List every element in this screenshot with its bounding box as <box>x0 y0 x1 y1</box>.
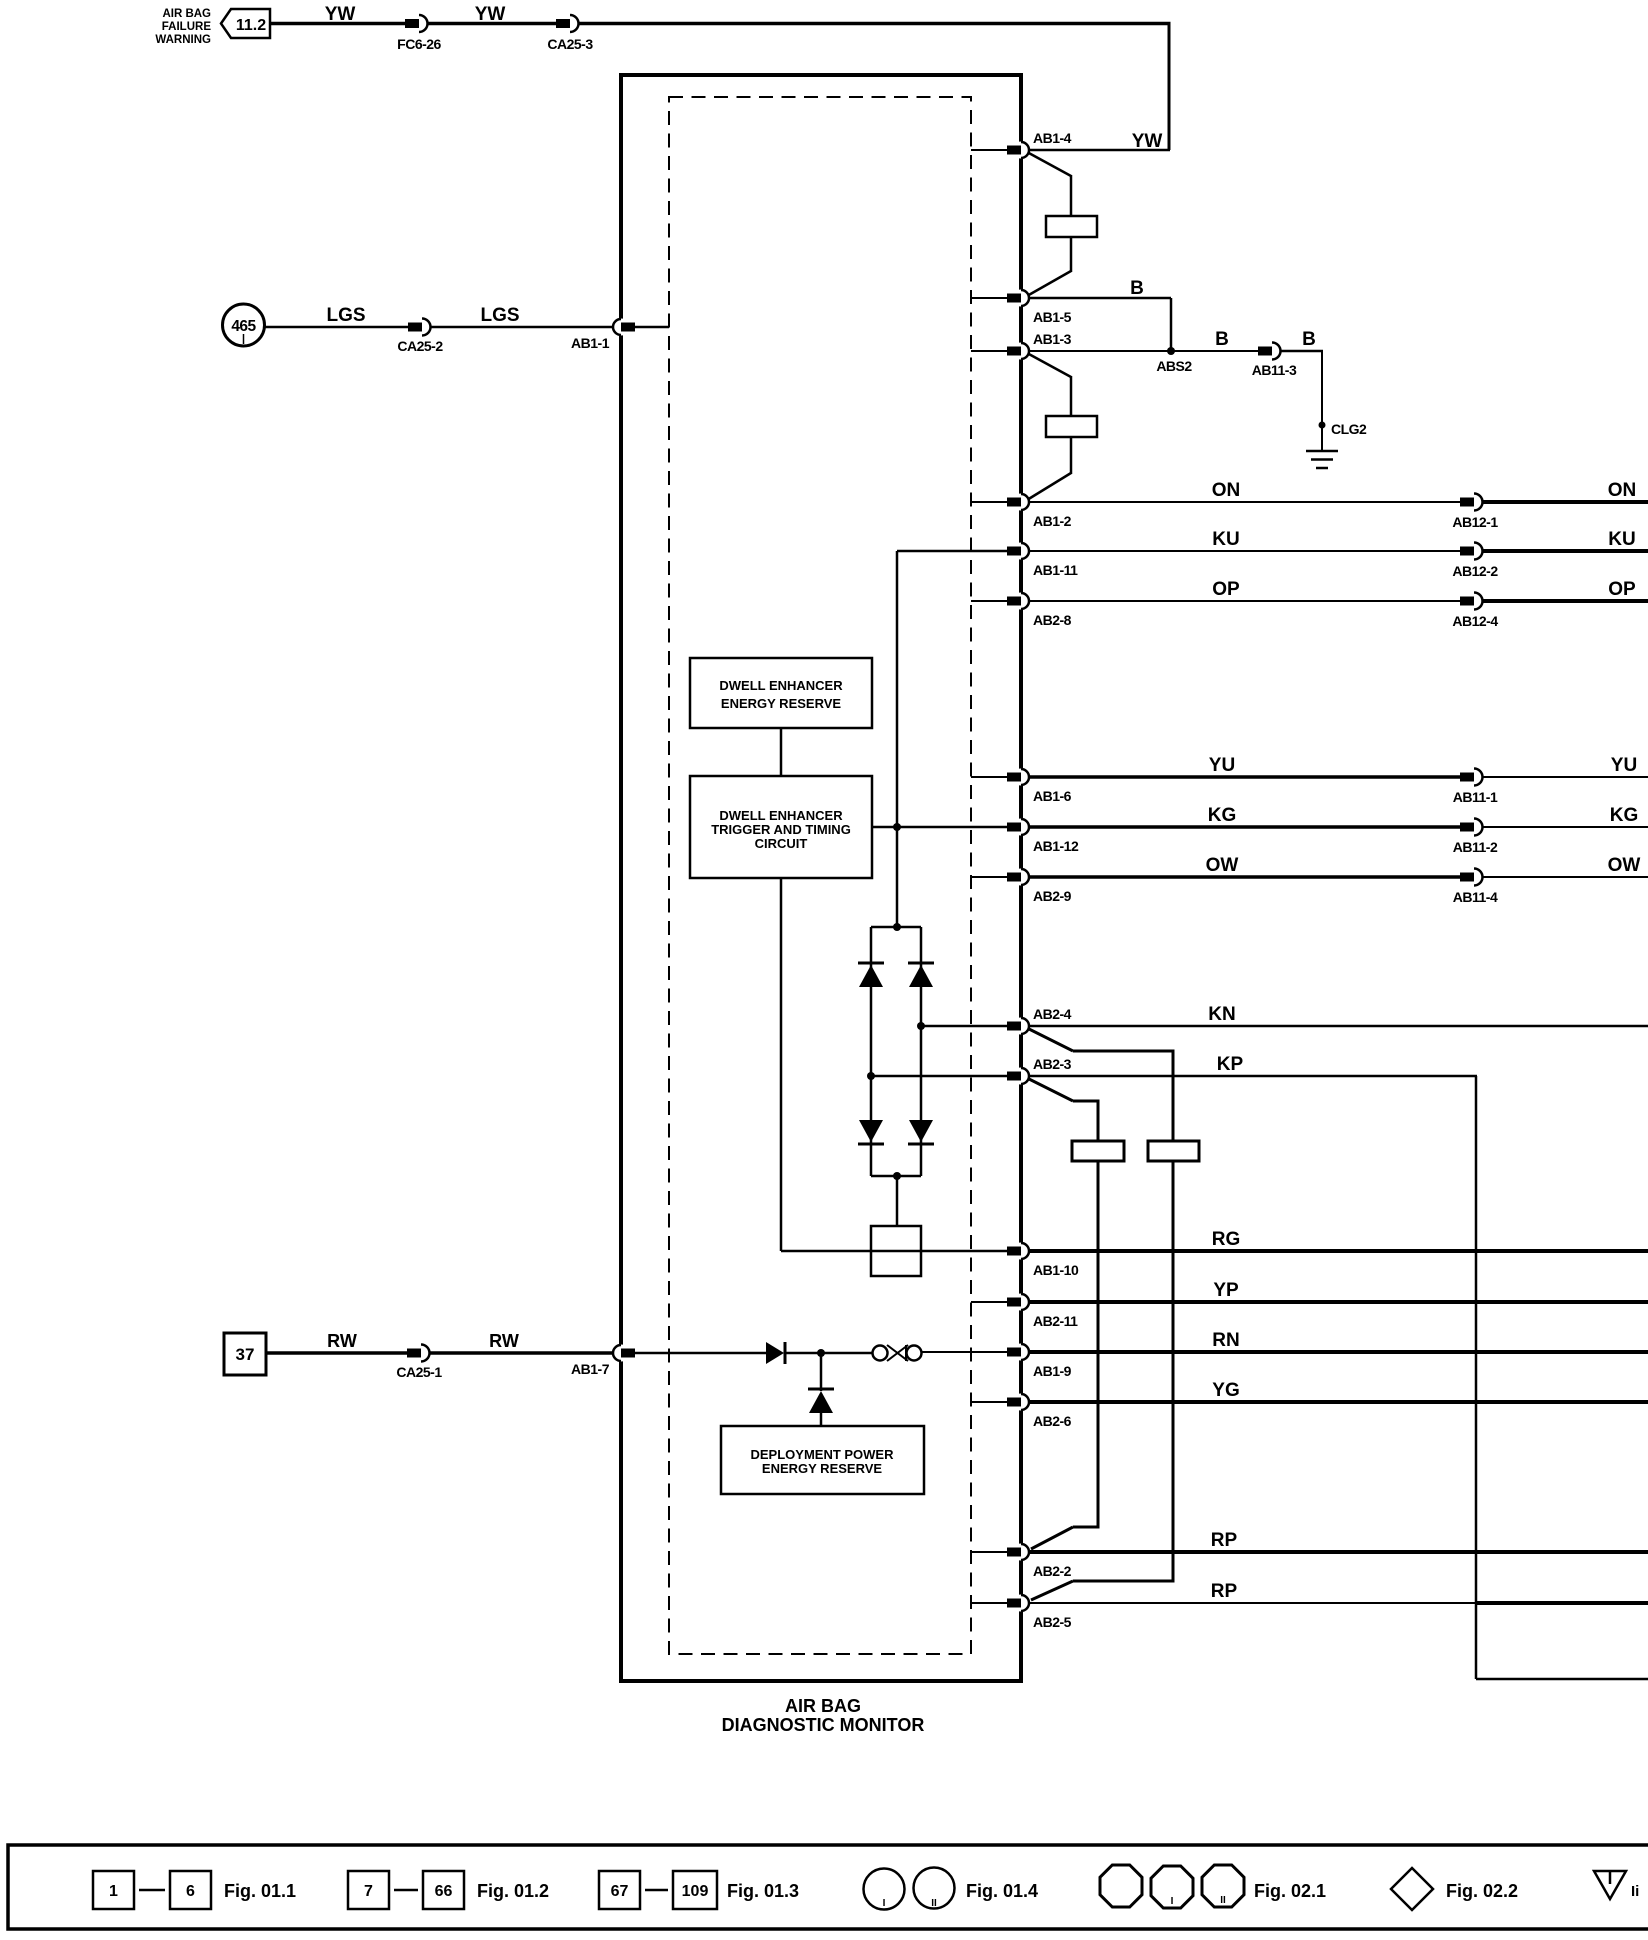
svg-text:YU: YU <box>1209 755 1235 776</box>
svg-text:AB1-2: AB1-2 <box>1033 513 1072 529</box>
svg-text:67: 67 <box>611 1883 629 1900</box>
svg-text:KG: KG <box>1208 805 1237 826</box>
svg-text:OP: OP <box>1212 579 1240 600</box>
svg-text:AB2-3: AB2-3 <box>1033 1056 1072 1072</box>
svg-text:YP: YP <box>1213 1280 1239 1301</box>
svg-text:II: II <box>931 1898 937 1909</box>
svg-text:AB1-10: AB1-10 <box>1033 1262 1079 1278</box>
svg-text:I: I <box>1171 1896 1174 1907</box>
svg-text:CA25-1: CA25-1 <box>396 1364 442 1380</box>
svg-text:AB1-11: AB1-11 <box>1033 562 1078 578</box>
svg-text:Fig. 02.2: Fig. 02.2 <box>1446 1881 1518 1901</box>
svg-text:FAILURE: FAILURE <box>162 21 212 33</box>
svg-text:AB1-12: AB1-12 <box>1033 838 1079 854</box>
svg-text:Fig. 01.2: Fig. 01.2 <box>477 1881 549 1901</box>
svg-text:AB2-6: AB2-6 <box>1033 1413 1072 1429</box>
svg-text:RG: RG <box>1212 1229 1241 1250</box>
svg-text:AB2-8: AB2-8 <box>1033 612 1072 628</box>
svg-text:B: B <box>1215 329 1229 350</box>
svg-text:AB1-6: AB1-6 <box>1033 788 1072 804</box>
svg-text:AB1-5: AB1-5 <box>1033 309 1072 325</box>
svg-text:RW: RW <box>327 1331 357 1351</box>
svg-text:YW: YW <box>1132 131 1163 152</box>
svg-text:465: 465 <box>231 318 256 335</box>
svg-text:CA25-2: CA25-2 <box>397 338 443 354</box>
svg-text:ON: ON <box>1608 480 1637 501</box>
svg-text:AB11-3: AB11-3 <box>1252 362 1297 378</box>
svg-text:RP: RP <box>1211 1581 1238 1602</box>
svg-text:1: 1 <box>109 1883 118 1900</box>
svg-text:Fig. 01.3: Fig. 01.3 <box>727 1881 799 1901</box>
svg-text:YU: YU <box>1611 755 1637 776</box>
svg-text:AB11-1: AB11-1 <box>1453 789 1498 805</box>
svg-text:OW: OW <box>1608 855 1641 876</box>
svg-text:37: 37 <box>236 1345 255 1364</box>
svg-text:AB1-7: AB1-7 <box>571 1361 610 1377</box>
svg-text:AB1-3: AB1-3 <box>1033 331 1072 347</box>
svg-text:KP: KP <box>1217 1054 1244 1075</box>
svg-text:109: 109 <box>682 1883 709 1900</box>
svg-text:AB2-2: AB2-2 <box>1033 1563 1072 1579</box>
svg-text:DIAGNOSTIC MONITOR: DIAGNOSTIC MONITOR <box>722 1715 925 1735</box>
svg-text:FC6-26: FC6-26 <box>397 36 441 52</box>
svg-text:RP: RP <box>1211 1530 1238 1551</box>
svg-text:KG: KG <box>1610 805 1639 826</box>
svg-text:CLG2: CLG2 <box>1331 421 1367 437</box>
svg-text:AB2-5: AB2-5 <box>1033 1614 1072 1630</box>
svg-text:AB1-4: AB1-4 <box>1033 130 1072 146</box>
svg-text:AIR BAG: AIR BAG <box>162 8 211 20</box>
svg-text:CA25-3: CA25-3 <box>547 36 593 52</box>
svg-text:AB1-1: AB1-1 <box>571 335 610 351</box>
svg-text:B: B <box>1130 278 1144 299</box>
svg-text:B: B <box>1302 329 1316 350</box>
svg-text:DWELL ENHANCER: DWELL ENHANCER <box>719 678 843 693</box>
svg-text:66: 66 <box>435 1883 453 1900</box>
svg-text:LGS: LGS <box>480 305 519 326</box>
svg-text:KU: KU <box>1212 529 1239 550</box>
svg-text:OP: OP <box>1608 579 1636 600</box>
svg-text:7: 7 <box>364 1883 373 1900</box>
svg-text:RN: RN <box>1212 1330 1239 1351</box>
svg-text:ABS2: ABS2 <box>1156 358 1192 374</box>
svg-text:KU: KU <box>1608 529 1635 550</box>
svg-text:AB1-9: AB1-9 <box>1033 1363 1072 1379</box>
svg-text:KN: KN <box>1208 1004 1235 1025</box>
svg-text:AB11-4: AB11-4 <box>1453 889 1498 905</box>
svg-text:ENERGY RESERVE: ENERGY RESERVE <box>762 1461 883 1476</box>
svg-text:II: II <box>1220 1895 1226 1906</box>
svg-text:AIR BAG: AIR BAG <box>785 1696 861 1716</box>
svg-text:Fig. 01.4: Fig. 01.4 <box>966 1881 1038 1901</box>
svg-text:YW: YW <box>475 4 506 25</box>
svg-text:Fig. 02.1: Fig. 02.1 <box>1254 1881 1326 1901</box>
svg-text:OW: OW <box>1206 855 1239 876</box>
svg-text:YG: YG <box>1212 1380 1239 1401</box>
svg-text:YW: YW <box>325 4 356 25</box>
svg-text:AB12-4: AB12-4 <box>1452 613 1498 629</box>
svg-text:I: I <box>883 1898 886 1909</box>
svg-text:Fig. 01.1: Fig. 01.1 <box>224 1881 296 1901</box>
svg-text:AB2-4: AB2-4 <box>1033 1006 1072 1022</box>
svg-text:AB11-2: AB11-2 <box>1453 839 1498 855</box>
svg-text:6: 6 <box>186 1883 195 1900</box>
svg-text:DWELL ENHANCER: DWELL ENHANCER <box>719 808 843 823</box>
svg-text:RW: RW <box>489 1331 519 1351</box>
svg-text:Ii: Ii <box>1631 1883 1639 1900</box>
svg-text:WARNING: WARNING <box>155 34 211 46</box>
svg-text:LGS: LGS <box>326 305 365 326</box>
svg-text:AB2-11: AB2-11 <box>1033 1313 1078 1329</box>
svg-text:DEPLOYMENT POWER: DEPLOYMENT POWER <box>750 1447 894 1462</box>
svg-text:CIRCUIT: CIRCUIT <box>755 836 808 851</box>
svg-text:ENERGY RESERVE: ENERGY RESERVE <box>721 696 842 711</box>
svg-text:ON: ON <box>1212 480 1241 501</box>
svg-text:11.2: 11.2 <box>236 17 266 34</box>
svg-text:AB2-9: AB2-9 <box>1033 888 1072 904</box>
svg-text:AB12-2: AB12-2 <box>1452 563 1498 579</box>
svg-text:TRIGGER AND TIMING: TRIGGER AND TIMING <box>711 822 851 837</box>
svg-text:AB12-1: AB12-1 <box>1452 514 1498 530</box>
